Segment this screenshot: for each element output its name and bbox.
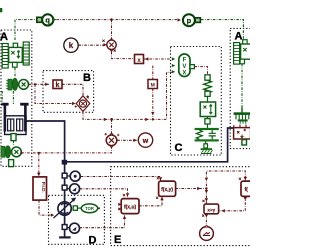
svg-text:E: E (114, 234, 121, 246)
svg-text:F: F (183, 58, 187, 64)
svg-text:f(: f( (245, 187, 249, 193)
svg-text:TOR: TOR (85, 206, 94, 211)
svg-text:f(x,y): f(x,y) (161, 187, 173, 193)
svg-text:X: X (182, 70, 186, 76)
svg-text:p: p (187, 16, 192, 25)
svg-text:w: w (142, 138, 149, 145)
svg-text:A: A (235, 31, 243, 43)
svg-text:q: q (45, 16, 50, 25)
svg-text:C: C (175, 142, 183, 154)
svg-text:A: A (0, 31, 8, 43)
svg-text:x: x (137, 57, 141, 64)
svg-text:B: B (83, 72, 91, 84)
svg-text:f(x,u): f(x,u) (124, 204, 137, 210)
svg-text:м: м (150, 83, 155, 89)
svg-text:P.I.D.: P.I.D. (41, 182, 46, 193)
svg-text:D: D (89, 235, 97, 247)
svg-text:k: k (56, 82, 60, 89)
svg-text:V: V (182, 64, 186, 70)
svg-text:k: k (69, 41, 74, 50)
svg-text:x>y: x>y (207, 207, 215, 212)
